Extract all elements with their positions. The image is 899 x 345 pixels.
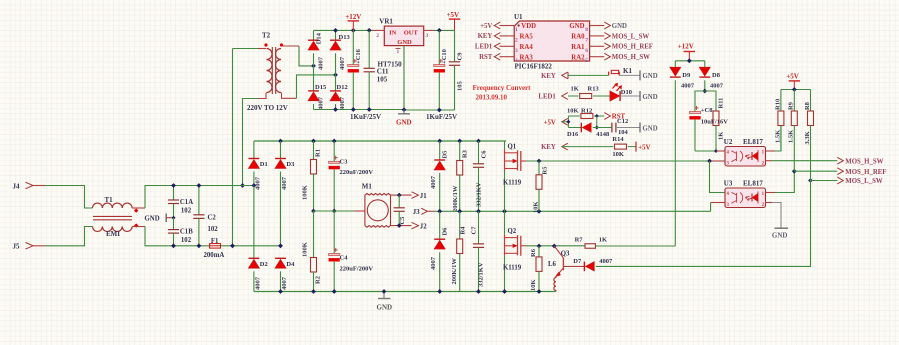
LED D10	[610, 91, 620, 101]
power +5V top right of VR1	[449, 18, 460, 20]
svg-text:T1: T1	[105, 196, 114, 204]
svg-text:C3: C3	[340, 159, 349, 166]
svg-text:4007: 4007	[430, 256, 437, 270]
U1 pin 7 RA0 stub	[590, 35, 605, 37]
wire M1 bottom to J2	[391, 225, 412, 227]
svg-text:1.5K: 1.5K	[788, 130, 795, 143]
junction Q3 collector node	[552, 244, 557, 249]
node left of R12 D16	[567, 116, 569, 128]
svg-text:R5: R5	[541, 166, 548, 175]
optocoupler U2 body	[725, 147, 766, 167]
svg-text:D1: D1	[260, 161, 268, 168]
port LED1 arrow	[494, 43, 500, 50]
svg-text:GND: GND	[772, 232, 788, 240]
junction R2 bottom	[311, 289, 316, 294]
wire T1 bottom right	[132, 226, 145, 228]
wire +5V resistor rail	[781, 89, 811, 91]
junction C2 bottom	[197, 243, 202, 248]
svg-text:R10: R10	[774, 99, 781, 110]
svg-text:J2: J2	[420, 224, 427, 231]
svg-text:100K: 100K	[301, 185, 308, 200]
svg-text:1K: 1K	[571, 85, 579, 92]
diode D4	[275, 257, 286, 259]
svg-text:8: 8	[585, 27, 588, 33]
capacitor C2	[198, 186, 200, 215]
svg-text:200K/1W: 200K/1W	[451, 258, 458, 285]
U1 pin 3 RA4 stub	[500, 45, 515, 47]
svg-text:GND: GND	[569, 23, 584, 30]
U1 pin 1 VDD stub	[500, 25, 515, 27]
wire KEY to R14	[562, 146, 614, 148]
wire U2pin3 down to U3 pin4	[710, 161, 726, 193]
junction U2 pin3 node	[707, 159, 712, 164]
ground GND below VR1	[403, 110, 405, 114]
junction D12 bottom	[333, 107, 338, 112]
svg-text:J5: J5	[13, 243, 21, 251]
svg-text:K1: K1	[623, 67, 632, 75]
capacitor C11	[368, 30, 370, 68]
svg-text:4148: 4148	[596, 131, 610, 138]
svg-text:EMI: EMI	[106, 230, 120, 238]
svg-text:R2: R2	[315, 276, 322, 284]
svg-text:D15: D15	[315, 84, 327, 91]
power tie +5V row	[635, 142, 637, 152]
port J2	[412, 222, 419, 229]
svg-text:105: 105	[377, 76, 388, 84]
junction +12V stub	[687, 58, 692, 63]
junction node secondary top	[311, 64, 316, 69]
transformer T1 EMI filter	[93, 203, 103, 208]
junction VR1 gnd	[402, 107, 407, 112]
diode D5	[439, 141, 441, 160]
junction T2 primary N	[230, 243, 235, 248]
svg-text:GND: GND	[643, 73, 658, 80]
wire node to R11	[705, 91, 716, 111]
MOSFET Q2	[504, 211, 506, 234]
junction D13 top	[333, 28, 338, 33]
svg-text:RA5: RA5	[520, 34, 534, 41]
svg-text:GND: GND	[377, 303, 393, 311]
svg-text:IN: IN	[389, 29, 397, 36]
wire +12V rail right	[675, 60, 705, 62]
svg-text:U3: U3	[724, 179, 733, 187]
wire T2 secondary top lead	[282, 45, 300, 47]
diode D3	[280, 141, 282, 159]
svg-text:C2: C2	[208, 214, 217, 221]
VR1 pin 1 GND lead	[403, 46, 405, 110]
capacitor C7	[478, 211, 480, 243]
capacitor C6	[478, 141, 480, 164]
svg-text:7: 7	[585, 37, 588, 43]
junction GND stub	[382, 289, 387, 294]
svg-text:105: 105	[457, 81, 464, 92]
U1 pin 6 RA1 stub	[590, 45, 605, 47]
wire K1 to GND	[619, 74, 640, 76]
svg-text:D6: D6	[442, 227, 449, 236]
svg-text:200K/1W: 200K/1W	[452, 185, 459, 212]
svg-text:C9: C9	[457, 52, 464, 61]
svg-text:R1: R1	[315, 149, 322, 157]
svg-text:4007: 4007	[599, 258, 613, 265]
wire DC- rail	[254, 291, 556, 293]
svg-text:K1119: K1119	[503, 180, 522, 187]
svg-text:C11: C11	[377, 68, 389, 76]
junction MOS_L_SW node	[808, 178, 813, 183]
wire J5 to T1	[45, 227, 93, 246]
svg-text:GND: GND	[643, 125, 658, 132]
svg-text:220V TO 12V: 220V TO 12V	[247, 104, 288, 112]
wire R14 to +5V	[628, 146, 636, 148]
svg-text:L6: L6	[548, 261, 557, 268]
svg-text:C6: C6	[481, 150, 488, 159]
svg-text:R13: R13	[588, 85, 600, 92]
svg-text:102: 102	[208, 226, 219, 233]
svg-text:1K: 1K	[599, 237, 607, 244]
junction C11 bottom	[367, 107, 372, 112]
wire N rail	[221, 245, 281, 247]
U2 pin3 stub	[710, 160, 726, 162]
svg-text:RST: RST	[479, 54, 493, 61]
junction D6 bottom	[437, 289, 442, 294]
svg-text:1: 1	[515, 27, 518, 33]
junction C1B bottom	[171, 243, 176, 248]
svg-text:D5: D5	[442, 150, 449, 159]
svg-text:GND: GND	[145, 216, 160, 223]
svg-text:C1A: C1A	[180, 199, 193, 206]
U3 pin1 wire to MOS_H_REF node	[766, 192, 776, 194]
svg-text:R4: R4	[460, 226, 467, 235]
svg-text:R7: R7	[575, 237, 584, 244]
svg-text:MOS_L_SW: MOS_L_SW	[612, 33, 650, 40]
capacitor C4	[333, 211, 335, 254]
svg-text:4007: 4007	[339, 96, 346, 110]
junction C16 top	[351, 28, 356, 33]
junction J1 C5	[397, 193, 402, 198]
svg-text:10K: 10K	[532, 201, 539, 213]
regulator VR1	[384, 26, 423, 45]
junction D16 C12 row	[595, 126, 599, 130]
svg-text:2: 2	[376, 33, 379, 39]
svg-text:3: 3	[426, 33, 429, 39]
svg-text:RA0: RA0	[571, 34, 585, 41]
svg-text:D9: D9	[682, 72, 691, 79]
diode D13	[335, 30, 337, 40]
diode D16	[580, 123, 582, 133]
Q2 gate lead wire	[521, 245, 526, 247]
svg-text:Q2: Q2	[508, 228, 517, 235]
svg-text:1KuF/25V: 1KuF/25V	[426, 113, 457, 121]
junction R1 top	[311, 139, 316, 144]
svg-text:C4: C4	[340, 255, 349, 262]
junction C10 bottom	[437, 108, 442, 113]
junction C2 top	[197, 183, 202, 188]
junction C7 bottom	[476, 289, 481, 294]
junction MOS_H_REF node	[792, 169, 797, 174]
junction D5 top	[437, 139, 442, 144]
wire mid rail to motor	[314, 210, 355, 212]
svg-text:R14: R14	[612, 136, 624, 143]
wire node to C8	[695, 91, 705, 112]
svg-text:RA1: RA1	[571, 44, 585, 51]
svg-text:10K: 10K	[567, 108, 579, 115]
wire T2 primary top vertical to N rail	[232, 49, 234, 246]
resistor R3	[459, 141, 461, 161]
svg-text:MOS_H_REF: MOS_H_REF	[845, 169, 886, 176]
svg-text:D14: D14	[316, 32, 323, 44]
resistor R9	[793, 90, 795, 112]
junction AC1 on L rail	[252, 183, 257, 188]
capacitor C9	[454, 30, 456, 61]
svg-text:U1: U1	[514, 13, 523, 21]
port MOS_H_REF arrow	[604, 43, 610, 50]
svg-text:D8: D8	[712, 72, 721, 79]
svg-text:+12V: +12V	[345, 13, 361, 21]
resistor R13	[580, 94, 592, 99]
svg-text:6: 6	[585, 48, 588, 54]
U1 pin 2 RA5 stub	[500, 35, 515, 37]
svg-text:+C16: +C16	[355, 48, 362, 64]
svg-text:D16: D16	[567, 131, 579, 138]
U1 pin 5 RA2 stub	[590, 56, 605, 58]
junction J2 C5	[397, 223, 402, 228]
port J1	[412, 192, 419, 199]
svg-text:3: 3	[515, 48, 518, 54]
port RST arrow	[494, 53, 500, 60]
junction R3 top	[457, 139, 462, 144]
svg-text:R3: R3	[462, 149, 469, 158]
inductor L6 on emitter	[555, 276, 557, 278]
svg-text:332/1KV: 332/1KV	[476, 182, 483, 207]
wire T1 top right	[132, 207, 145, 209]
svg-text:VR1: VR1	[379, 17, 393, 25]
wire T2 secondary bottom lead	[282, 93, 297, 99]
port MOS_H_SW arrow	[604, 53, 610, 60]
fuse F1	[210, 244, 221, 249]
power +12V	[348, 20, 360, 22]
junction AC2 on N rail	[278, 243, 283, 248]
capacitor C1A	[173, 186, 175, 200]
svg-text:4: 4	[515, 58, 518, 64]
svg-text:R9: R9	[788, 101, 795, 110]
resistor R4	[459, 211, 461, 239]
svg-text:M1: M1	[362, 183, 373, 191]
wire DC+ rail	[254, 140, 506, 142]
wire to R12	[568, 115, 579, 117]
U2 pin4 stub	[716, 150, 725, 152]
ground tie GND row2	[639, 91, 641, 101]
svg-text:MOS_L_SW: MOS_L_SW	[845, 178, 883, 185]
port GND arrow	[604, 22, 610, 29]
svg-text:4007: 4007	[281, 276, 288, 290]
ground tie GND row3	[639, 123, 641, 133]
diode D8	[704, 61, 706, 68]
wire R12 down to D16 row	[596, 116, 598, 128]
port MOS_H_REF	[837, 168, 843, 175]
port MOS_L_SW	[837, 177, 843, 184]
svg-text:4007: 4007	[681, 82, 695, 89]
junction C4 bottom	[332, 289, 337, 294]
wire +5V to D16	[568, 127, 581, 129]
svg-text:C12: C12	[617, 118, 628, 125]
wire R11 to U2 pin4	[715, 126, 717, 152]
junction R6 bottom	[537, 289, 542, 294]
junction C10 top	[437, 28, 442, 33]
svg-text:J3: J3	[413, 209, 420, 216]
wire D16 to C12	[593, 127, 612, 129]
resistor R8	[810, 90, 812, 112]
diode D6	[439, 211, 441, 239]
wire PSU 0V rail	[314, 109, 405, 111]
svg-text:4007: 4007	[430, 175, 437, 189]
resistor R10	[780, 90, 782, 112]
diode D1	[253, 141, 255, 159]
optocoupler U3 body	[725, 188, 766, 208]
svg-text:10uF/16V: 10uF/16V	[701, 119, 728, 126]
svg-text:KEY: KEY	[541, 144, 556, 151]
svg-text:D2: D2	[260, 261, 268, 268]
junction D4 bottom	[278, 289, 283, 294]
U1 pin 8 GND stub	[590, 25, 605, 27]
wire +5V rail	[434, 29, 455, 31]
wire Q1 gate net to U2 pin3	[521, 160, 710, 162]
svg-text:RA3: RA3	[520, 54, 534, 61]
diode D15	[313, 66, 315, 91]
svg-text:+5V: +5V	[480, 23, 492, 30]
wire mid source rail	[440, 210, 711, 212]
svg-text:EL817: EL817	[743, 179, 763, 187]
diode D2	[249, 257, 260, 259]
VR1 pin 2 lead	[373, 29, 385, 31]
capacitor C8	[689, 112, 700, 114]
resistor R1	[313, 141, 315, 160]
junction C1A C1B mid	[172, 216, 176, 220]
U1 pin 4 RA3 stub	[500, 56, 515, 58]
svg-text:R8: R8	[804, 101, 811, 110]
port KEY arrow	[494, 33, 500, 40]
switch K1	[608, 72, 610, 76]
junction R3 R4 mid	[457, 209, 462, 214]
Q1 gate lead	[521, 160, 526, 162]
svg-text:HT7150: HT7150	[378, 61, 403, 69]
svg-text:J1: J1	[420, 193, 427, 200]
svg-text:D12: D12	[337, 84, 348, 91]
U3 pin2 wire to GND	[766, 202, 773, 204]
resistor R6	[538, 246, 540, 257]
capacitor C16	[352, 30, 354, 64]
svg-text:102: 102	[181, 207, 192, 214]
svg-text:D10: D10	[621, 89, 632, 96]
ground tie GND row1	[639, 70, 641, 80]
port +5V arrow	[494, 22, 500, 29]
svg-text:C7: C7	[471, 226, 478, 235]
svg-text:MOS_H_SW: MOS_H_SW	[612, 54, 650, 61]
port MOS_L_SW arrow	[604, 33, 610, 40]
wire J4 to T1	[45, 186, 93, 209]
svg-text:RA2: RA2	[571, 54, 585, 61]
wire R13 to D10	[593, 95, 610, 97]
capacitor C1B	[173, 218, 175, 230]
svg-text:MOS_H_SW: MOS_H_SW	[845, 158, 883, 165]
svg-text:4007: 4007	[254, 276, 261, 290]
svg-text:GND: GND	[396, 118, 412, 126]
junction C16 bottom	[351, 107, 356, 112]
svg-text:C1B: C1B	[180, 229, 193, 236]
junction C1A top	[171, 183, 176, 188]
svg-text:RA4: RA4	[520, 44, 534, 51]
svg-text:T2: T2	[262, 32, 271, 40]
junction T2 primary on L rail	[240, 183, 245, 188]
junction R1 R2 mid	[311, 209, 316, 214]
IC U1 PIC16F1822 body	[514, 21, 589, 61]
svg-text:200mA: 200mA	[204, 252, 225, 259]
diode D14	[313, 30, 315, 40]
svg-text:+C8: +C8	[701, 107, 713, 114]
svg-text:R6: R6	[530, 248, 537, 257]
Q3 base lead	[563, 265, 584, 267]
junction C3 top	[332, 139, 337, 144]
svg-text:104: 104	[618, 129, 629, 136]
svg-text:+12V: +12V	[678, 42, 694, 50]
svg-text:KEY: KEY	[478, 33, 493, 40]
wire T2 primary bottom lead	[258, 93, 266, 99]
wire M1 top to J1	[391, 194, 412, 196]
svg-text:GND: GND	[397, 39, 412, 46]
svg-text:Frequency Convert: Frequency Convert	[473, 84, 532, 92]
wire MOS_L_SW	[811, 180, 838, 182]
wire source net to U3 pin3	[710, 203, 712, 212]
svg-text:PIC16F1822: PIC16F1822	[515, 63, 553, 71]
svg-text:220uF/200V: 220uF/200V	[340, 266, 374, 273]
U2 pin2 wire MOS_H_SW	[766, 160, 773, 162]
wire R7 to D9 column	[595, 245, 675, 247]
capacitor C5	[398, 195, 400, 208]
motor M1	[365, 194, 391, 228]
svg-text:VDD: VDD	[521, 23, 536, 30]
wire C12 to GND	[616, 127, 640, 129]
svg-text:U2: U2	[724, 138, 733, 146]
resistor R11	[713, 111, 719, 126]
junction C6 top	[476, 139, 481, 144]
junction +5V stub right	[792, 87, 797, 92]
svg-text:332/1KV: 332/1KV	[478, 262, 485, 287]
diode D7	[583, 262, 585, 272]
svg-text:2: 2	[515, 37, 518, 43]
diode D9	[674, 61, 676, 68]
svg-text:MOS_H_REF: MOS_H_REF	[612, 44, 653, 51]
U3 pin3 stub	[711, 202, 725, 204]
svg-text:K1119: K1119	[503, 264, 522, 271]
junction C11 top	[367, 28, 372, 33]
svg-text:4007: 4007	[281, 176, 288, 190]
svg-text:LED1: LED1	[538, 94, 556, 101]
resistor R5	[538, 161, 540, 175]
capacitor C10	[438, 30, 440, 64]
wire D8 to node	[704, 80, 706, 91]
svg-text:LED1: LED1	[475, 44, 493, 51]
svg-text:220uF/200V: 220uF/200V	[340, 169, 374, 176]
svg-text:3.3K: 3.3K	[804, 131, 811, 144]
svg-text:1KuF/25V: 1KuF/25V	[350, 113, 381, 121]
resistor R14	[615, 144, 627, 149]
svg-text:10K: 10K	[530, 279, 537, 291]
svg-text:GND: GND	[643, 94, 658, 101]
svg-text:+5V: +5V	[786, 72, 799, 80]
svg-text:+5V: +5V	[638, 144, 650, 151]
wire D9 down to Q2 gate net	[674, 80, 676, 246]
ground GND below DC- rail	[383, 292, 385, 299]
svg-text:F1: F1	[211, 238, 219, 245]
ground GND below U3	[775, 227, 789, 229]
